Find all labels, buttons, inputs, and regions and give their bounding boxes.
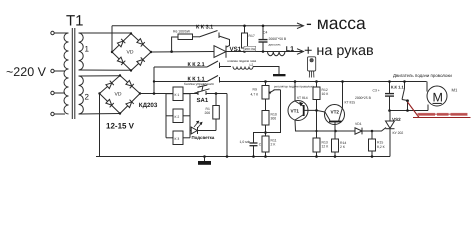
wire R10 to junction: [265, 125, 267, 136]
svg-text:К 1: К 1: [175, 93, 180, 97]
capacitor C2: [250, 143, 258, 157]
svg-text:C4: C4: [263, 31, 267, 35]
red callout line: [408, 102, 471, 118]
transformer T1 secondary winding 1: [79, 33, 84, 70]
node feed/button: [153, 92, 156, 95]
K2 left stub: [166, 115, 173, 117]
svg-text:1,0 мФ: 1,0 мФ: [240, 140, 251, 144]
terminal 4: [51, 112, 65, 115]
node VT2 collector on rail: [341, 80, 344, 83]
wire sec2 top to bridge2 top corner: [79, 75, 120, 77]
node R9 top on rail: [264, 80, 267, 83]
node C2 bottom: [252, 155, 255, 158]
VD1 wire: [336, 130, 373, 132]
resistor R17: [242, 26, 248, 52]
capacitor C4: [259, 26, 268, 52]
node ground stub: [203, 155, 206, 158]
transistor package icon: [308, 57, 316, 78]
switch K.K 1.1 (motor): [402, 82, 409, 111]
push button SA1 symbol: [194, 85, 209, 95]
K3 right stub: [183, 137, 190, 139]
node R15 top: [371, 130, 374, 133]
relay coil K1: [173, 87, 183, 101]
relay coil K3: [173, 131, 183, 145]
svg-text:VS2: VS2: [392, 117, 401, 122]
control rail to motor: [220, 81, 427, 83]
node R17 top: [243, 25, 246, 28]
svg-text:VD1: VD1: [355, 122, 362, 126]
node cross at VD1 line: [315, 130, 317, 132]
svg-text:К К 3.1: К К 3.1: [196, 25, 213, 31]
wire R6 to switch: [193, 36, 200, 38]
node C4 top: [262, 25, 265, 28]
svg-text:200: 200: [205, 111, 211, 115]
resistor R13: [313, 138, 320, 157]
svg-text:2: 2: [85, 93, 90, 102]
K1 left stub: [166, 93, 173, 95]
node C3 bottom: [388, 109, 391, 112]
svg-text:12 К: 12 К: [322, 145, 329, 149]
node R13 bottom: [315, 155, 318, 158]
K3 left stub: [166, 137, 173, 139]
svg-text:8,2 К: 8,2 К: [377, 145, 385, 149]
svg-text:Подсветка: Подсветка: [192, 135, 215, 140]
wire sec1 top to bridge1 top corner: [79, 32, 131, 34]
svg-text:12-15 V: 12-15 V: [106, 122, 135, 131]
wire R6 branch vertical: [172, 37, 178, 52]
wire button to corner: [206, 93, 227, 95]
wiper return wire: [266, 90, 281, 133]
main positive line from bridge1: [151, 51, 214, 54]
left coil bus: [165, 94, 167, 138]
svg-text:- масса: - масса: [306, 13, 366, 33]
svg-text:К 2: К 2: [175, 115, 180, 119]
resistor R6: [178, 34, 193, 40]
top rail (minus): [112, 25, 302, 27]
svg-text:R9: R9: [253, 88, 257, 92]
switch KK2.1: [207, 61, 220, 68]
node switch top on rail: [403, 80, 406, 83]
terminal 3: [51, 91, 65, 94]
switch KK1.1: [207, 76, 220, 83]
node R12 top on rail: [315, 80, 318, 83]
svg-text:SA1: SA1: [197, 97, 209, 104]
svg-text:КУ 202: КУ 202: [393, 131, 404, 135]
wire corner down to bottom rail: [226, 94, 228, 157]
node R17 bottom: [243, 50, 246, 53]
svg-text:регулятор подачи проволоки: регулятор подачи проволоки: [274, 85, 314, 89]
button row line: [154, 93, 198, 95]
transistor VT1: [288, 101, 308, 121]
svg-text:1: 1: [85, 45, 90, 54]
node R11 bottom: [264, 155, 267, 158]
VT2 collector wire: [342, 82, 344, 108]
svg-text:L1: L1: [286, 46, 294, 53]
wire sec2 bottom to bridge2 bottom corner: [79, 113, 120, 116]
node switch bottom: [406, 109, 409, 112]
capacitor C3: [385, 82, 394, 111]
node corner bottom: [226, 155, 229, 158]
wire switch to VS1 gate: [219, 36, 230, 47]
node VT1 emitter on rail: [294, 80, 297, 83]
svg-text:К К 2.1: К К 2.1: [188, 62, 205, 68]
VT1 emitter wire up to rail: [294, 82, 296, 102]
svg-text:КД203: КД203: [139, 102, 158, 109]
gas valve coil L2: [233, 67, 253, 70]
svg-text:Кнопка управления: Кнопка управления: [184, 82, 214, 86]
node C4 bottom: [262, 50, 265, 53]
wire VD1 line to VS2 gate: [372, 128, 386, 132]
LED подсветка: [191, 121, 202, 134]
svg-text:М1: М1: [452, 88, 458, 93]
vertical R12 to R13: [316, 100, 318, 139]
svg-text:2000*25 В: 2000*25 В: [355, 96, 372, 100]
VT1 base wire: [304, 110, 325, 112]
svg-text:C3 +: C3 +: [373, 89, 380, 93]
transformer core: [72, 28, 75, 119]
svg-text:Т1: Т1: [66, 13, 84, 30]
svg-text:К 3: К 3: [175, 137, 180, 141]
wire to gas valve: [220, 66, 232, 68]
wire R9 to R10: [265, 99, 267, 111]
svg-text:КТ 815: КТ 815: [345, 101, 356, 105]
arrow to massa: [297, 23, 304, 29]
bottom rail: [96, 156, 390, 158]
svg-text:~220 V: ~220 V: [6, 65, 47, 79]
resistor R15: [369, 131, 376, 157]
potentiometer R9: [262, 82, 281, 100]
resistor R14: [332, 139, 339, 157]
transformer T1 secondary winding 2: [79, 76, 84, 114]
svg-text:VD: VD: [115, 92, 122, 98]
svg-text:2000Г*50 В: 2000Г*50 В: [269, 37, 287, 41]
motor M1: [427, 82, 447, 111]
feed vertical from bridge2: [153, 67, 155, 94]
main line VS1 to arrow: [226, 51, 302, 53]
diode VD1: [355, 128, 362, 135]
relay coil K2: [173, 109, 183, 123]
VT1 collector wire down: [295, 120, 336, 131]
terminal 2: [51, 69, 65, 72]
ground: [198, 157, 211, 165]
transformer T1 primary taps: [65, 32, 69, 34]
svg-text:4,7 К: 4,7 К: [251, 93, 259, 97]
svg-text:R6 100/5W: R6 100/5W: [173, 30, 191, 34]
node R10/R11/C2/wiper junction: [264, 131, 267, 134]
K1 right stub: [183, 93, 190, 95]
resistor R1: [213, 94, 220, 131]
inductor L1: [268, 52, 285, 56]
R17 value 200 Ом: [244, 46, 256, 51]
svg-text:Двигатель подачи проволоки: Двигатель подачи проволоки: [393, 73, 452, 78]
thyristor VS2: [386, 111, 395, 157]
resistor R11: [262, 136, 269, 157]
LED line: [190, 130, 216, 132]
resistor R10: [262, 111, 269, 126]
svg-text:10 К: 10 К: [322, 92, 329, 96]
svg-text:дроссель: дроссель: [269, 42, 282, 46]
wire bridge2 minus down: [99, 94, 101, 157]
svg-text:VT1: VT1: [291, 109, 300, 114]
node feed row KK1.1: [153, 80, 155, 82]
node R6 branch: [170, 50, 173, 53]
wire VT2 emitter to R14: [334, 131, 336, 139]
svg-text:VT2: VT2: [331, 110, 340, 115]
svg-text:М: М: [433, 91, 443, 105]
transistor VT2: [325, 105, 345, 125]
node R14 bottom: [334, 155, 337, 158]
node VT1 base junction: [315, 109, 318, 112]
red note text: [418, 113, 468, 116]
svg-text:300: 300: [271, 117, 277, 121]
wire sec1 bottom to bridge1 bottom corner: [79, 69, 131, 71]
row KK2.1 line: [154, 66, 207, 68]
svg-text:2 К: 2 К: [340, 145, 345, 149]
C2 branch wire: [254, 133, 266, 143]
svg-text:2 К: 2 К: [271, 143, 276, 147]
resistor R12: [313, 82, 320, 100]
right coil bus: [189, 94, 191, 138]
wire bridge2 plus to feed node: [140, 93, 154, 95]
svg-text:200 Ом: 200 Ом: [245, 47, 255, 51]
svg-text:VD: VD: [127, 50, 134, 56]
node VD1 branch: [334, 130, 337, 133]
arrow to rukav: [297, 49, 304, 55]
transformer T1 primary winding: [64, 33, 69, 114]
motor bottom line: [390, 110, 428, 112]
valve end bar: [273, 74, 286, 76]
wire bridge1 minus up to top rail: [111, 26, 113, 52]
VT2 emitter wire: [334, 122, 336, 132]
thyristor VS1: [214, 46, 226, 58]
node C3 top on rail: [388, 80, 391, 83]
svg-text:R17: R17: [249, 34, 255, 38]
K2 right stub: [183, 115, 190, 117]
node R1 top: [215, 92, 218, 95]
row KK1.1 line: [154, 81, 207, 83]
svg-text:К.К 1.1: К.К 1.1: [391, 85, 404, 90]
svg-text:КТ 814: КТ 814: [297, 96, 308, 100]
wire L2 to bar: [253, 67, 279, 75]
svg-text:L2: L2: [250, 63, 254, 67]
switch KK3.1: [199, 31, 219, 39]
bridge rectifier VD (top): [111, 32, 152, 71]
node R15 bottom: [371, 155, 374, 158]
terminal 1: [51, 31, 65, 34]
svg-text:R15: R15: [377, 141, 383, 145]
bridge rectifier VD KD203 (bottom): [98, 74, 141, 114]
